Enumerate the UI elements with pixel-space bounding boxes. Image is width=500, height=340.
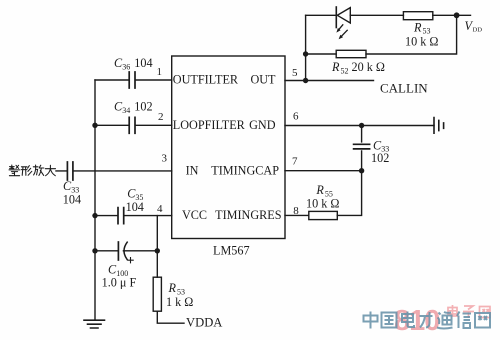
svg-text:20 k Ω: 20 k Ω: [352, 60, 385, 74]
svg-text:104: 104: [63, 193, 81, 207]
svg-text:104: 104: [134, 56, 152, 70]
svg-text:34: 34: [122, 106, 130, 115]
svg-text:R: R: [413, 20, 422, 34]
svg-text:4: 4: [157, 203, 163, 215]
svg-text:6: 6: [293, 111, 299, 123]
svg-text:1: 1: [157, 66, 163, 78]
svg-text:1.0 μ F: 1.0 μ F: [102, 276, 137, 290]
svg-text:GND: GND: [249, 118, 276, 132]
svg-text:7: 7: [292, 156, 298, 168]
svg-text:LOOPFILTER: LOOPFILTER: [173, 118, 246, 132]
svg-text:OUTFILTER: OUTFILTER: [173, 73, 239, 87]
svg-text:R: R: [315, 183, 324, 197]
svg-text:TIMINGCAP: TIMINGCAP: [211, 163, 279, 177]
svg-text:36: 36: [122, 62, 130, 71]
svg-text:IN: IN: [186, 163, 199, 177]
svg-text:CALLIN: CALLIN: [380, 81, 428, 96]
svg-text:1 k Ω: 1 k Ω: [166, 295, 193, 309]
svg-text:10 k Ω: 10 k Ω: [306, 196, 339, 210]
svg-text:52: 52: [341, 66, 349, 75]
svg-text:104: 104: [126, 200, 144, 214]
svg-text:R: R: [168, 281, 177, 295]
svg-text:3: 3: [162, 153, 168, 165]
svg-text:2: 2: [158, 111, 164, 123]
svg-text:102: 102: [134, 100, 152, 114]
svg-text:8: 8: [293, 205, 299, 217]
svg-text:TIMINGRES: TIMINGRES: [215, 208, 282, 222]
svg-text:10 k Ω: 10 k Ω: [405, 34, 438, 48]
svg-text:DD: DD: [473, 27, 483, 34]
svg-text:5: 5: [292, 67, 298, 79]
svg-text:R: R: [331, 60, 340, 74]
svg-text:LM567: LM567: [213, 244, 250, 258]
svg-text:810: 810: [394, 305, 439, 337]
svg-text:102: 102: [371, 151, 389, 165]
svg-text:VDDA: VDDA: [186, 316, 222, 330]
svg-text:OUT: OUT: [250, 73, 276, 87]
svg-text:VCC: VCC: [182, 208, 207, 222]
